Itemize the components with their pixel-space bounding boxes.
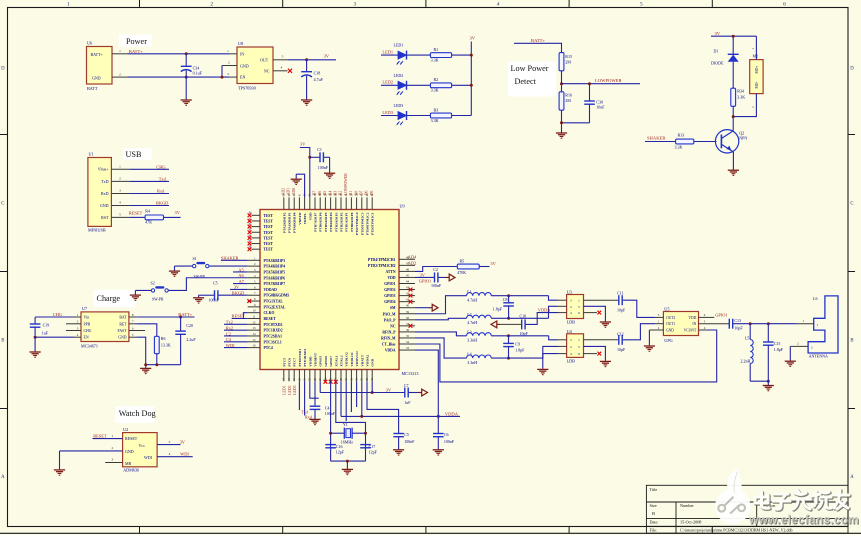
- svg-text:WDI: WDI: [180, 451, 189, 456]
- svg-text:LED2: LED2: [382, 80, 393, 85]
- svg-text:B7: B7: [313, 191, 317, 196]
- wire U4 pin4 to ground: [543, 354, 558, 369]
- svg-text:C7: C7: [404, 383, 409, 388]
- svg-text:VCONT: VCONT: [684, 329, 697, 333]
- svg-text:LDB: LDB: [567, 319, 576, 324]
- svg-text:ANTENNA: ANTENNA: [809, 354, 828, 359]
- junction VDDA rail left: [360, 415, 363, 418]
- svg-text:Txd: Txd: [159, 177, 167, 182]
- svg-text:BKGD: BKGD: [232, 290, 244, 295]
- wire SHAKER to R13: [645, 141, 676, 143]
- svg-text:3V: 3V: [715, 31, 721, 36]
- ground C5: [198, 295, 200, 297]
- svg-text:RFIN_M: RFIN_M: [381, 336, 396, 340]
- svg-text:1.8pF: 1.8pF: [774, 347, 784, 352]
- svg-text:RESET: RESET: [232, 314, 246, 319]
- capacitor C19: [34, 317, 36, 324]
- wire WDI: [224, 347, 248, 349]
- svg-text:VDDLO1: VDDLO1: [350, 352, 354, 367]
- svg-text:PTB4AD1P4: PTB4AD1P4: [329, 212, 333, 232]
- junction for C20: [179, 316, 182, 319]
- svg-text:U7: U7: [82, 306, 87, 311]
- wire L4 to U4 pin2: [491, 357, 543, 359]
- svg-text:3V: 3V: [420, 273, 426, 278]
- svg-text:B2: B2: [339, 191, 343, 196]
- svg-text:4.7uF: 4.7uF: [314, 77, 324, 82]
- svg-text:Vcc: Vcc: [139, 443, 146, 448]
- wire pin32 to VDDA rail: [361, 381, 363, 416]
- svg-text:IN: IN: [692, 322, 696, 326]
- svg-text:46: 46: [406, 267, 410, 271]
- U8 pin 4 NC stub with no-connect X: [273, 70, 288, 72]
- M2 pin 1 stub: [755, 36, 757, 59]
- svg-text:100nF: 100nF: [318, 165, 329, 170]
- wire PAO_P to L2: [415, 318, 467, 320]
- capacitor C18: [306, 60, 308, 72]
- svg-text:www.elecfans.com: www.elecfans.com: [748, 513, 859, 527]
- svg-text:MR: MR: [125, 461, 132, 466]
- wire RFIN_P to L3: [415, 332, 467, 336]
- svg-text:U2: U2: [123, 427, 128, 432]
- svg-text:C15: C15: [774, 341, 781, 346]
- wire LED2 to R2: [407, 84, 431, 86]
- svg-text:3: 3: [570, 338, 572, 342]
- power arrow C7: [419, 392, 422, 394]
- svg-text:R16: R16: [565, 93, 572, 98]
- svg-text:13: 13: [253, 326, 257, 330]
- capacitor C11: [618, 295, 620, 305]
- svg-text:36: 36: [406, 328, 410, 332]
- svg-text:OUT2: OUT2: [666, 316, 675, 320]
- capacitor C1: [310, 156, 320, 158]
- wire into LED2: [381, 84, 398, 86]
- svg-text:34: 34: [406, 340, 410, 344]
- svg-text:PTC2SDA1: PTC2SDA1: [264, 334, 283, 338]
- U3 left pin stubs: [558, 299, 567, 301]
- svg-text:C5: C5: [213, 280, 218, 285]
- svg-text:AD0: AD0: [292, 188, 296, 195]
- svg-text:PTA4KBI1P4: PTA4KBI1P4: [264, 265, 286, 269]
- svg-text:2: 2: [119, 177, 121, 181]
- svg-text:CLKO: CLKO: [264, 311, 275, 315]
- svg-text:VDDA: VDDA: [538, 308, 552, 313]
- svg-text:PTC1RXD2: PTC1RXD2: [264, 329, 283, 333]
- wire Rxd: [130, 193, 169, 195]
- wire VDD row4: [415, 276, 434, 278]
- resistor R34: [731, 88, 736, 106]
- wire R2 to 3V bus: [452, 84, 472, 86]
- svg-text:10pF: 10pF: [617, 347, 626, 352]
- svg-text:R4: R4: [145, 209, 150, 214]
- svg-text:14: 14: [253, 332, 257, 336]
- svg-text:File:: File:: [650, 528, 658, 533]
- svg-text:U1: U1: [89, 152, 94, 157]
- junction C1: [308, 156, 311, 159]
- ground Q2 emitter: [728, 169, 739, 171]
- svg-text:MO-: MO-: [755, 81, 759, 89]
- ground watchdog: [54, 469, 65, 471]
- svg-text:1: 1: [67, 2, 70, 8]
- svg-text:PTB5AD1P5: PTB5AD1P5: [324, 212, 328, 232]
- svg-text:U6: U6: [87, 41, 92, 46]
- svg-text:PTB0AD1P0: PTB0AD1P0: [350, 212, 354, 232]
- junction motor rail: [732, 35, 735, 38]
- U2 pin2 wire to ground: [60, 450, 123, 452]
- junction for C18: [305, 58, 308, 61]
- svg-text:10pF: 10pF: [734, 325, 743, 330]
- svg-text:LED3: LED3: [382, 110, 394, 115]
- capacitor C5: [214, 290, 216, 300]
- wire RESET row11: [232, 318, 248, 320]
- svg-text:DIODE: DIODE: [711, 60, 724, 65]
- svg-text:3V: 3V: [180, 440, 186, 445]
- svg-text:VDDAD: VDDAD: [264, 288, 278, 292]
- svg-text:39: 39: [406, 310, 410, 314]
- wire R34 to collector junction: [732, 106, 734, 130]
- diode D1: [732, 36, 734, 54]
- svg-text:2M: 2M: [565, 98, 571, 103]
- svg-text:4.7nH: 4.7nH: [467, 298, 477, 303]
- junction bottom rail: [767, 380, 770, 383]
- svg-text:NPN: NPN: [739, 136, 747, 141]
- svg-text:TEST: TEST: [264, 214, 274, 218]
- svg-text:LED1: LED1: [394, 43, 404, 48]
- ground S2: [134, 290, 136, 294]
- ground C6: [433, 449, 444, 451]
- svg-text:PTA1KBI1P1: PTA1KBI1P1: [288, 212, 292, 233]
- svg-text:15-Oct-2008: 15-Oct-2008: [680, 520, 701, 525]
- svg-text:GND: GND: [100, 203, 109, 208]
- svg-text:1: 1: [803, 319, 805, 323]
- svg-text:BATT+: BATT+: [91, 52, 104, 57]
- svg-text:3V: 3V: [300, 141, 306, 146]
- no-connect X GPIO4: [409, 300, 413, 304]
- svg-text:Rxd: Rxd: [157, 189, 165, 194]
- svg-text:GPIO4: GPIO4: [384, 300, 395, 304]
- capacitor C5 decoupling: [393, 433, 404, 435]
- balun U4 LDB: [567, 334, 584, 358]
- svg-text:R34: R34: [737, 89, 744, 94]
- svg-text:PTD6TPM2C2: PTD6TPM2C2: [366, 212, 370, 235]
- svg-text:CT_Bias: CT_Bias: [382, 343, 396, 347]
- wire BATT+ to R15: [514, 43, 562, 52]
- wire R6 bottom: [156, 354, 158, 365]
- svg-text:SM: SM: [390, 306, 396, 310]
- svg-text:GPIO1: GPIO1: [384, 282, 395, 286]
- svg-text:100nF: 100nF: [444, 439, 455, 444]
- svg-text:4: 4: [281, 66, 283, 70]
- wire RFIN_M to L4: [415, 338, 467, 358]
- junction L1 C8: [507, 294, 510, 297]
- U3 pin6 stub with X: [584, 312, 598, 314]
- svg-text:ATTN: ATTN: [386, 270, 396, 274]
- section title Low Power Detect: [508, 62, 556, 97]
- svg-text:6: 6: [578, 311, 580, 315]
- capacitor C4 drop: [314, 381, 316, 406]
- wire C13 to antenna: [733, 323, 797, 325]
- power arrow SM: [429, 307, 432, 309]
- U6 pin 1 stub: [112, 53, 128, 55]
- wire S2 left to ground: [135, 289, 151, 291]
- svg-text:C17: C17: [369, 444, 376, 449]
- svg-text:BATT+: BATT+: [531, 38, 545, 43]
- wire CHG to U7 Vin: [35, 316, 74, 318]
- wire BAT to BATT+: [136, 316, 194, 318]
- connector M2 motor: [750, 60, 763, 94]
- wire S2 to MCU row4: [168, 278, 247, 291]
- wire VDDA from U9 right pin33: [415, 350, 438, 416]
- junction 3V rail: [371, 391, 374, 394]
- svg-text:2: 2: [119, 73, 121, 77]
- svg-text:SHAKER: SHAKER: [221, 255, 239, 260]
- svg-text:Vin: Vin: [84, 316, 90, 320]
- capacitor C9: [508, 336, 510, 343]
- svg-text:S1: S1: [193, 256, 197, 261]
- wire Tx2: [224, 323, 248, 325]
- svg-text:L6: L6: [813, 296, 817, 301]
- capacitor C4: [310, 405, 321, 407]
- svg-text:1.8pF: 1.8pF: [493, 307, 503, 312]
- svg-text:U8: U8: [238, 41, 243, 46]
- svg-text:R6: R6: [161, 336, 166, 341]
- charge bottom rail: [146, 364, 181, 366]
- wire PAO_M to L1: [415, 296, 467, 314]
- svg-text:EN: EN: [84, 336, 89, 340]
- junction for C30: [588, 82, 591, 85]
- svg-text:4: 4: [119, 201, 121, 205]
- svg-text:1: 1: [112, 434, 114, 438]
- svg-text:C11: C11: [617, 291, 624, 296]
- svg-text:1: 1: [119, 165, 121, 169]
- wire L2 to U3 pin2: [491, 317, 548, 319]
- svg-text:2: 2: [570, 305, 572, 309]
- junction crystal left: [329, 432, 332, 435]
- svg-text:3.3nH: 3.3nH: [467, 360, 477, 365]
- U2 pin1 wire: [93, 438, 123, 440]
- ground U4 pin5: [600, 360, 611, 362]
- svg-text:C5: C5: [404, 432, 409, 437]
- no-connect X marks on U9 bottom pins: [324, 380, 328, 384]
- svg-text:2: 2: [797, 342, 799, 346]
- capacitor C34: [185, 54, 187, 66]
- svg-text:ADM636: ADM636: [123, 468, 139, 473]
- svg-text:38: 38: [406, 316, 410, 320]
- svg-text:VDDINT: VDDINT: [314, 352, 318, 366]
- svg-text:1: 1: [578, 338, 580, 342]
- U3 pin1 wire to C11: [584, 299, 619, 301]
- wire D1 to R34: [732, 62, 734, 88]
- junction L5: [749, 322, 752, 325]
- svg-text:GND: GND: [92, 75, 101, 80]
- capacitor C15: [767, 324, 769, 342]
- svg-text:RxD: RxD: [101, 191, 109, 196]
- svg-text:IN: IN: [240, 52, 244, 57]
- junction L2 C8: [507, 317, 510, 320]
- svg-text:TEST: TEST: [264, 219, 274, 223]
- resistor R1: [430, 53, 451, 58]
- U8 pin 2 stub and jog to EN wire: [222, 65, 237, 67]
- svg-text:470K: 470K: [457, 270, 466, 275]
- wire RET to R6: [136, 324, 157, 337]
- U8 pin 5 OUT stub: [273, 59, 288, 61]
- svg-text:GND: GND: [666, 329, 674, 333]
- svg-text:LED2: LED2: [288, 385, 292, 394]
- junction C19 EN wire: [34, 336, 37, 339]
- U8 pin 1 stub: [229, 53, 237, 55]
- section title Watch Dog: [115, 406, 155, 423]
- junction crystal right: [364, 432, 367, 435]
- wire R13 to Q2 base: [694, 141, 717, 143]
- svg-text:GND: GND: [118, 336, 126, 340]
- svg-text:GPIO1: GPIO1: [419, 278, 431, 283]
- svg-text:35: 35: [406, 334, 410, 338]
- junction VDDA rail right: [437, 415, 440, 418]
- svg-text:10: 10: [253, 309, 257, 313]
- svg-text:LED3: LED3: [293, 385, 297, 394]
- svg-text:C12: C12: [617, 331, 624, 336]
- svg-text:C16: C16: [336, 444, 343, 449]
- svg-text:12pF: 12pF: [369, 450, 378, 455]
- connector U6: [87, 47, 113, 85]
- resistor R16: [559, 92, 564, 110]
- IC U9 MC13213: [260, 210, 399, 370]
- svg-text:R5: R5: [460, 259, 465, 264]
- svg-text:3.3nH: 3.3nH: [467, 338, 477, 343]
- svg-text:100nF: 100nF: [209, 298, 220, 303]
- svg-text:D5: D5: [370, 190, 374, 195]
- svg-text:Low Power: Low Power: [511, 64, 549, 73]
- svg-text:0.1uF: 0.1uF: [193, 70, 203, 75]
- svg-text:PTG1XTAL: PTG1XTAL: [264, 300, 284, 304]
- svg-text:VREFH: VREFH: [298, 212, 302, 225]
- wire R1 to 3V bus: [452, 54, 472, 56]
- antenna pin2 stub and ground: [790, 345, 808, 347]
- wire BATT+ from U6 to U8 IN: [128, 53, 230, 55]
- wire filler col13: [345, 381, 347, 421]
- svg-text:3V: 3V: [175, 210, 181, 215]
- U8 pin 3 stub: [229, 76, 237, 78]
- svg-text:MC34671: MC34671: [81, 344, 98, 349]
- svg-text:R2: R2: [434, 77, 439, 82]
- svg-text:Number: Number: [680, 503, 694, 508]
- wire R3 to 3V bus: [452, 115, 472, 117]
- svg-text:PTE0TXD1: PTE0TXD1: [298, 349, 302, 367]
- svg-text:D: D: [1, 67, 5, 72]
- wire Q2 emitter to ground: [732, 151, 734, 170]
- no-connect X GPIO2: [409, 288, 413, 292]
- svg-text:6: 6: [783, 2, 786, 8]
- svg-text:1uF: 1uF: [404, 400, 411, 405]
- svg-text:LED1: LED1: [382, 50, 393, 55]
- svg-text:C19: C19: [43, 322, 50, 327]
- svg-text:AD2: AD2: [282, 188, 286, 195]
- svg-text:PTD2/TPM1CH2: PTD2/TPM1CH2: [368, 264, 396, 268]
- svg-text:3V: 3V: [470, 36, 476, 41]
- U2 pin3 stub: [105, 462, 122, 464]
- wire RESET to R4: [130, 216, 146, 218]
- svg-text:3.3K: 3.3K: [431, 58, 439, 63]
- svg-text:L5: L5: [745, 335, 749, 340]
- svg-text:Date:: Date:: [650, 520, 659, 525]
- wire filler col14: [350, 381, 352, 412]
- LED 3V bus vertical wire: [470, 42, 472, 116]
- svg-text:RESET: RESET: [264, 317, 277, 321]
- regulator U8 TPS76930: [237, 47, 273, 84]
- svg-text:D: D: [850, 67, 854, 72]
- section title Power: [119, 35, 152, 48]
- wire 3V to U9 VDD top pin: [300, 148, 310, 198]
- svg-text:PTB3AD1P3: PTB3AD1P3: [334, 212, 338, 232]
- svg-text:33: 33: [406, 346, 410, 350]
- svg-text:WDI: WDI: [144, 455, 153, 460]
- svg-text:R1: R1: [434, 47, 439, 52]
- svg-text:Title: Title: [650, 487, 658, 492]
- junction LOWPOWER: [560, 82, 563, 85]
- U4 pin5 wire to ground: [584, 346, 606, 361]
- ground below C34: [185, 77, 187, 99]
- svg-text:D1: D1: [714, 49, 719, 54]
- wire L5 to C15 bottom rail: [750, 380, 768, 382]
- no-connect X NC row12: [409, 324, 413, 328]
- resistor R6: [154, 336, 159, 353]
- svg-text:TEST: TEST: [264, 231, 274, 235]
- U6 pin 2 stub: [112, 76, 128, 78]
- ground U4 pin4: [537, 368, 548, 370]
- capacitor C20: [180, 317, 182, 331]
- ground U3 pin5: [600, 321, 611, 323]
- svg-text:B0: B0: [354, 191, 358, 196]
- zone tick marks: [139, 0, 141, 8]
- wire Txd from bottom pin: [298, 381, 300, 410]
- ground C1: [329, 157, 331, 172]
- svg-text:3: 3: [354, 2, 357, 8]
- svg-text:PTC3SCL1: PTC3SCL1: [264, 340, 282, 344]
- svg-text:LOWPOWER: LOWPOWER: [595, 78, 622, 83]
- svg-text:PTA6KBI1P6: PTA6KBI1P6: [264, 276, 286, 280]
- wire into LED1: [381, 54, 398, 56]
- svg-text:TxD: TxD: [101, 179, 108, 184]
- junction LED1 bus: [470, 54, 473, 57]
- svg-text:12pF: 12pF: [336, 450, 345, 455]
- sheet outer bottom border: [0, 532, 861, 534]
- U5 right stubs: [699, 316, 715, 318]
- svg-text:VDDLO2: VDDLO2: [345, 352, 349, 367]
- svg-text:AD2: AD2: [408, 260, 417, 265]
- svg-text:C13: C13: [734, 318, 741, 323]
- wire LED3 to R3: [407, 115, 431, 117]
- svg-text:3: 3: [119, 189, 121, 193]
- svg-text:2: 2: [112, 446, 114, 450]
- resistor R2: [430, 83, 451, 88]
- wire C2: [224, 335, 248, 337]
- svg-text:B1: B1: [349, 191, 353, 196]
- svg-text:TEST: TEST: [264, 225, 274, 229]
- M2 pin 2 stub and wire: [733, 94, 756, 117]
- ground below C19: [34, 337, 36, 351]
- svg-text:PTC7: PTC7: [293, 358, 297, 367]
- svg-text:C20: C20: [186, 323, 193, 328]
- svg-text:RESET: RESET: [125, 436, 138, 441]
- svg-text:OUT1: OUT1: [666, 322, 675, 326]
- ground U5: [644, 345, 655, 347]
- wire XTAL1 to crystal: [330, 381, 332, 461]
- wire 3V row6: [230, 288, 248, 290]
- svg-text:PTA5KBI1P5: PTA5KBI1P5: [264, 270, 286, 274]
- svg-text:GPIO7: GPIO7: [329, 356, 333, 367]
- U2 pin5 Vcc wire: [157, 444, 180, 446]
- amplifier U5 UPG: [663, 312, 698, 336]
- svg-text:TPS76930: TPS76930: [238, 86, 256, 91]
